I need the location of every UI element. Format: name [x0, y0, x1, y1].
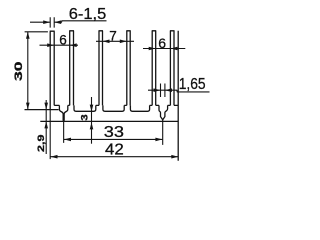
svg-text:6: 6 [158, 35, 166, 51]
arrow 1,65 right (outside, points left) [165, 88, 172, 92]
svg-text:7: 7 [109, 28, 117, 43]
seating plane line L2 [40, 120, 178, 122]
slot channel4 [130, 105, 149, 111]
dim 42 ext left [49, 110, 51, 160]
svg-text:42: 42 [105, 142, 124, 159]
fin F4 [126, 31, 130, 106]
arrow 3 bottom (outside, points up) [90, 122, 94, 129]
dim 1,65 line [148, 90, 210, 92]
dim 33 line [64, 138, 162, 140]
base bottom line L1 left [25, 109, 59, 111]
svg-text:6-1,5: 6-1,5 [69, 6, 107, 23]
dim 42 line [51, 156, 179, 158]
dim 2,9 line [45, 100, 47, 154]
dim 3 line [91, 97, 93, 144]
arrow 33 left (inside, points left) [64, 138, 71, 142]
svg-text:1,65: 1,65 [179, 76, 206, 93]
dim 7 ch3 line [96, 40, 134, 42]
fin F1 (left edge fin) [50, 31, 55, 109]
slot channel2 [74, 105, 96, 111]
dim 6 ch5 line [143, 48, 185, 50]
arrow 42 left (inside, points left) [51, 155, 58, 159]
svg-text:33: 33 [104, 124, 124, 141]
arrow 30 top (inside, points up) [26, 32, 30, 39]
svg-text:2,9: 2,9 [36, 135, 47, 153]
dim 30 line [27, 32, 29, 110]
arrow 30 bottom (inside, points down) [26, 103, 30, 110]
svg-text:30: 30 [13, 62, 25, 82]
slot channel3 [103, 105, 124, 111]
arrow 6ch1 left (outside, points right) [47, 43, 54, 47]
arrow 6ch5 right (outside, points left) [170, 47, 177, 51]
dim 33 ext lines [64, 120, 163, 145]
dim 6 ch1 line [40, 44, 79, 46]
svg-text:6: 6 [59, 32, 67, 47]
svg-text:3: 3 [79, 114, 90, 120]
arrow 7 right (inside, points right) [120, 40, 127, 44]
arrow 6ch1 right (outside, points left) [70, 43, 77, 47]
arrow 7 left (inside, points left) [103, 40, 110, 44]
solder pin P1 [59, 105, 67, 121]
fin F2 [69, 31, 74, 106]
arrow 1,5 right (outside, points left) [54, 20, 61, 24]
arrow 42 right (inside, points right) [171, 155, 178, 159]
solder pin P2 [159, 105, 168, 119]
arrow 1,65 left (outside, points right) [154, 88, 161, 92]
arrow 2,9 top (outside, points down) [44, 103, 48, 110]
dim 1,5 ticks [50, 17, 54, 27]
arrow 3 top (outside, points down) [90, 105, 94, 112]
arrow 6ch5 left (outside, points right) [149, 47, 156, 51]
right edge wall [177, 31, 179, 161]
arrow 2,9 bottom (outside, points up) [44, 121, 48, 128]
fin F3 [99, 31, 104, 106]
arrow 33 right (inside, points right) [155, 138, 162, 142]
fin F5 [152, 31, 157, 106]
fin F6 [170, 31, 175, 106]
dim 1,65 ticks [161, 84, 165, 98]
arrow 1,5 left (outside, points right) [43, 20, 50, 24]
dim 30 extension top [25, 31, 48, 33]
channel floor segments [54, 104, 178, 106]
dim 1,5 lines [30, 21, 107, 22]
